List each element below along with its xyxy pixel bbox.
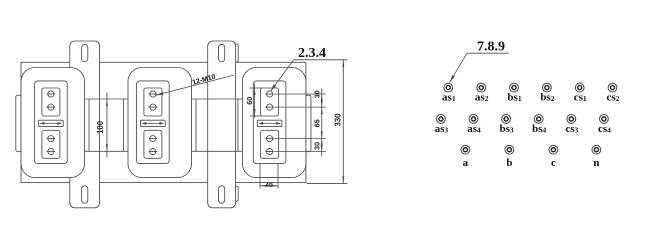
svg-text:c: c xyxy=(551,157,556,169)
svg-text:bs3: bs3 xyxy=(500,123,514,135)
phase C screw terminal 3 xyxy=(267,136,273,142)
terminal cs4 xyxy=(600,115,609,124)
svg-text:bs1: bs1 xyxy=(507,92,521,104)
phase A terminal face plate xyxy=(35,81,68,164)
phase C nameplate strip xyxy=(257,120,282,126)
terminal a xyxy=(461,145,470,154)
CT body base plate outline xyxy=(21,62,306,182)
svg-text:as4: as4 xyxy=(467,123,481,135)
phase B secondary terminal group frame xyxy=(144,130,162,158)
phase B nameplate strip xyxy=(141,120,166,126)
bracket 2 bottom slot xyxy=(219,186,225,203)
phase A nameplate strip xyxy=(39,120,64,126)
svg-text:n: n xyxy=(593,157,599,169)
phase A screw terminal 1 xyxy=(48,91,54,97)
phase C terminal face plate xyxy=(253,81,286,164)
terminal as2 xyxy=(477,83,486,92)
svg-text:b: b xyxy=(506,157,512,169)
svg-text:cs2: cs2 xyxy=(607,92,620,104)
bracket 1 bottom slot xyxy=(82,186,88,203)
svg-text:2.3.4: 2.3.4 xyxy=(298,46,326,61)
phase B screw terminal 4 xyxy=(150,148,156,154)
terminal cs1 xyxy=(575,83,584,92)
dimension 40 (terminal group width) xyxy=(259,164,261,189)
dimension 60 (terminal group height) xyxy=(250,87,262,89)
terminal bs2 xyxy=(543,83,552,92)
mounting bracket strap 2 (between phase B and C) xyxy=(208,41,236,208)
bracket 1 top slot xyxy=(82,44,88,62)
svg-text:60: 60 xyxy=(245,97,254,105)
svg-text:65: 65 xyxy=(312,119,321,127)
phase A screw terminal 3 xyxy=(48,136,54,142)
terminal bs4 xyxy=(534,115,543,124)
phase B screw terminal 2 xyxy=(150,104,156,110)
dimension 100 (core height) xyxy=(106,93,108,158)
svg-text:100: 100 xyxy=(96,120,105,134)
phase A screw terminal 2 xyxy=(48,104,54,110)
phase B screw terminal 1 xyxy=(150,91,156,97)
svg-text:bs4: bs4 xyxy=(532,123,546,135)
phase C secondary terminal group frame xyxy=(261,130,279,158)
svg-text:as2: as2 xyxy=(475,92,489,104)
right core end plate xyxy=(306,95,311,152)
phase B primary terminal group frame xyxy=(144,88,162,116)
phase B coil unit body xyxy=(128,68,192,178)
terminal cs2 xyxy=(608,83,617,92)
phase C screw terminal 2 xyxy=(267,104,273,110)
label 7.8.9 with leader to terminal as1 xyxy=(467,52,509,54)
dimension chain 30/65/30 (terminal spacing) xyxy=(274,93,326,95)
terminal b xyxy=(505,145,514,154)
svg-text:a: a xyxy=(463,157,469,169)
svg-text:bs2: bs2 xyxy=(540,92,554,104)
phase A secondary terminal group frame xyxy=(42,130,60,158)
svg-text:as1: as1 xyxy=(442,92,456,104)
svg-text:7.8.9: 7.8.9 xyxy=(477,40,505,55)
svg-text:cs4: cs4 xyxy=(598,123,611,135)
phase B screw terminal 3 xyxy=(150,136,156,142)
svg-text:as3: as3 xyxy=(435,123,449,135)
svg-text:cs3: cs3 xyxy=(565,123,578,135)
terminal n xyxy=(592,145,601,154)
svg-text:30: 30 xyxy=(312,90,321,98)
terminal as4 xyxy=(469,115,478,124)
coil flange stub edges xyxy=(88,99,90,151)
phase C coil unit body xyxy=(242,68,306,178)
terminal bs3 xyxy=(502,115,511,124)
left core end plate xyxy=(16,95,21,152)
phase C primary terminal group frame xyxy=(261,88,279,116)
phase C screw terminal 4 xyxy=(267,148,273,154)
label 2.3.4 with leader to phase C terminal 1 xyxy=(294,59,348,61)
terminal c xyxy=(549,145,558,154)
svg-text:cs1: cs1 xyxy=(574,92,587,104)
terminal as1 xyxy=(444,83,453,92)
label 12-M10 with leader to phase B terminal 1 xyxy=(156,75,234,95)
core yoke bar (wireframe, crosses brackets) xyxy=(16,99,311,151)
terminal bs1 xyxy=(510,83,519,92)
bracket strap 2 side ears xyxy=(235,44,239,62)
svg-text:40: 40 xyxy=(265,182,273,189)
terminal as3 xyxy=(437,115,446,124)
svg-text:30: 30 xyxy=(312,142,321,150)
dimension 330 (overall height) xyxy=(307,182,348,184)
terminal cs3 xyxy=(567,115,576,124)
bracket 2 top slot xyxy=(219,44,225,62)
svg-text:330: 330 xyxy=(334,113,343,127)
phase A primary terminal group frame xyxy=(42,88,60,116)
phase B terminal face plate xyxy=(137,81,170,164)
phase A coil unit body xyxy=(21,68,85,178)
phase C screw terminal 1 xyxy=(267,91,273,97)
mounting bracket strap 1 (between phase A and B) xyxy=(70,41,100,208)
phase A screw terminal 4 xyxy=(48,148,54,154)
